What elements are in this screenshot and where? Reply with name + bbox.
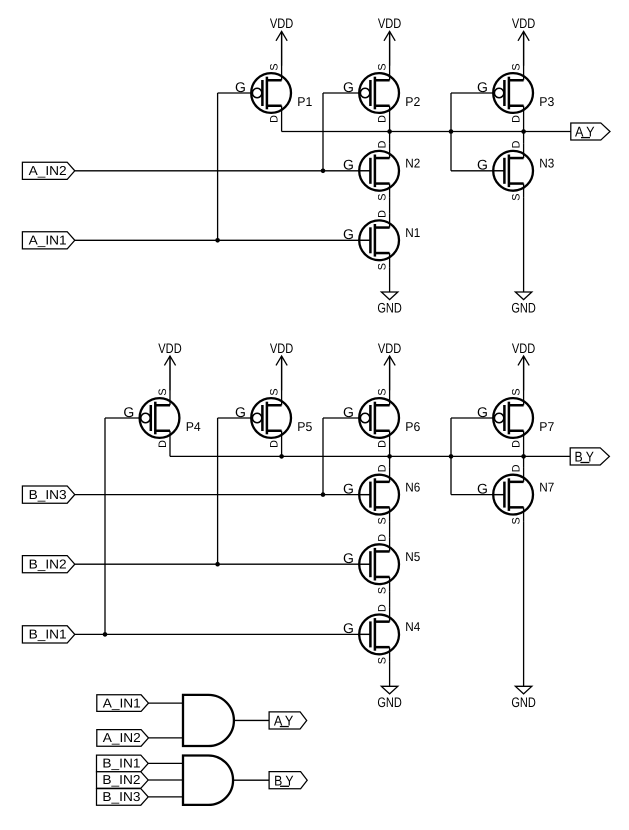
wire B_IN1 to gate B: [148, 762, 183, 764]
wire N2 drain to bus: [389, 132, 391, 144]
wire B_IN3 branch up to P6 gate: [322, 418, 324, 495]
svg-text:N6: N6: [405, 479, 420, 494]
wire A_IN2 to gate A: [149, 737, 184, 739]
wire VDD to P6 source: [389, 356, 391, 391]
junction bus at P6-N6 drains: [387, 454, 392, 459]
hierarchical label B_Y: [570, 448, 609, 465]
svg-text:S: S: [376, 63, 388, 70]
svg-text:D: D: [510, 440, 522, 448]
svg-text:VDD: VDD: [158, 341, 181, 356]
wire B_IN2 to N5 gate: [75, 563, 371, 565]
svg-text:B_IN3: B_IN3: [29, 487, 67, 502]
svg-text:P7: P7: [539, 419, 554, 434]
wire N7 drain to bus: [523, 456, 525, 467]
wire N4 source to GND: [389, 661, 391, 686]
svg-text:G: G: [343, 480, 354, 496]
svg-text:G: G: [477, 79, 488, 95]
wire N3 gate: [451, 170, 504, 172]
wire N7 gate: [451, 494, 504, 496]
transistor P2 (PMOS): [343, 63, 420, 123]
transistor P3 (PMOS): [477, 63, 554, 123]
svg-text:D: D: [376, 140, 388, 148]
wire B_IN1 to N4 gate: [75, 633, 371, 635]
svg-text:VDD: VDD: [512, 16, 535, 31]
svg-text:GND: GND: [377, 301, 402, 316]
wire VDD to P3 source: [523, 31, 525, 66]
svg-text:VDD: VDD: [378, 16, 401, 31]
junction B_IN2 / P5 gate: [215, 562, 220, 567]
svg-text:N7: N7: [539, 479, 554, 494]
svg-text:G: G: [343, 620, 354, 636]
junction bus at P3-N3 drains: [521, 129, 526, 134]
wire P7 drain to bus: [523, 445, 525, 456]
transistor N4 (NMOS): [343, 604, 420, 664]
svg-text:VDD: VDD: [512, 341, 535, 356]
wire VDD to P5 source: [281, 356, 283, 391]
svg-text:S: S: [376, 193, 388, 200]
wire B_IN2 to gate B: [148, 779, 183, 781]
svg-text:D: D: [157, 440, 169, 448]
svg-text:D: D: [510, 115, 522, 123]
hierarchical label B_IN2: [97, 772, 149, 789]
svg-text:S: S: [157, 388, 169, 395]
svg-text:D: D: [376, 210, 388, 218]
hierarchical label A_IN1: [97, 695, 149, 712]
svg-text:N3: N3: [539, 156, 554, 171]
wire A_IN1 to N1 gate: [75, 239, 371, 241]
wire A_IN2 to N2 gate: [75, 170, 371, 172]
svg-text:D: D: [376, 534, 388, 542]
wire P7 gate: [451, 417, 494, 419]
wire P1 drain to bus: [281, 120, 283, 132]
svg-text:S: S: [510, 517, 522, 524]
junction B_IN1 / P4 gate: [103, 632, 108, 637]
transistor N5 (NMOS): [343, 534, 420, 594]
transistor N2 (NMOS): [343, 140, 420, 200]
wire P4 gate: [105, 417, 141, 419]
svg-text:S: S: [376, 587, 388, 594]
hierarchical label B_IN1: [22, 626, 74, 643]
power VDD (P4): [158, 341, 181, 391]
ground GND (N1): [377, 292, 402, 316]
wire N1 source to GND: [389, 267, 391, 292]
svg-text:B_IN1: B_IN1: [29, 627, 67, 642]
transistor N6 (NMOS): [343, 464, 420, 524]
svg-text:P4: P4: [186, 419, 201, 434]
hierarchical label A_Y: [571, 123, 610, 140]
svg-text:S: S: [268, 63, 280, 70]
transistor P5 (PMOS): [235, 388, 312, 448]
wire N6 drain to bus: [389, 456, 391, 467]
wire N2 source to N1 drain: [389, 198, 391, 214]
wire node A bus: [282, 131, 571, 133]
svg-text:G: G: [235, 404, 246, 420]
power VDD (P3): [512, 16, 535, 65]
wire P5 gate: [218, 417, 253, 419]
AND gate symbol (A_Y = A_IN1 AND A_IN2): [183, 695, 234, 746]
svg-text:P6: P6: [405, 419, 420, 434]
svg-text:S: S: [268, 388, 280, 395]
hierarchical label A_IN1: [22, 232, 74, 249]
svg-text:A_IN1: A_IN1: [29, 233, 67, 248]
hierarchical label A_IN2: [97, 730, 149, 747]
svg-text:B_IN1: B_IN1: [102, 756, 140, 771]
svg-text:G: G: [477, 480, 488, 496]
wire VDD to P4 source: [169, 356, 171, 391]
svg-text:S: S: [376, 388, 388, 395]
wire P6 drain to bus: [389, 445, 391, 456]
power VDD (P1): [270, 16, 293, 65]
ground GND (N3): [511, 292, 536, 316]
junction A_IN1 / P1 gate: [215, 238, 220, 243]
svg-text:N2: N2: [405, 156, 420, 171]
junction bus at inverter B input: [449, 454, 454, 459]
svg-text:B_IN3: B_IN3: [102, 789, 140, 804]
hierarchical label A_IN2: [22, 162, 74, 179]
wire N3 source to GND: [523, 198, 525, 292]
svg-text:D: D: [510, 464, 522, 472]
wire P6 gate: [323, 417, 360, 419]
svg-text:S: S: [510, 63, 522, 70]
transistor N3 (NMOS): [477, 140, 554, 200]
power VDD (P5): [270, 341, 293, 391]
wire N5 source to N4 drain: [389, 591, 391, 607]
wire A_IN1 to gate A: [149, 702, 184, 704]
svg-text:A_IN2: A_IN2: [29, 163, 67, 178]
wire gate A output: [234, 719, 269, 721]
svg-text:D: D: [510, 140, 522, 148]
wire N3 drain to bus: [523, 132, 525, 144]
svg-text:VDD: VDD: [270, 16, 293, 31]
svg-text:P5: P5: [297, 419, 312, 434]
hierarchical label A_Y: [269, 712, 307, 729]
wire N7 source to GND: [523, 522, 525, 687]
hierarchical label B_IN2: [22, 556, 74, 573]
junction bus at P5 drain: [279, 454, 284, 459]
wire VDD to P2 source: [389, 31, 391, 66]
ground GND (N7): [511, 686, 536, 710]
wire A_IN2 branch up to P2 gate: [322, 93, 324, 171]
wire VDD to P7 source: [523, 356, 525, 391]
wire A_IN1 branch up to P1 gate: [217, 93, 219, 240]
wire VDD to P1 source: [281, 31, 283, 66]
wire P3 drain to bus: [523, 120, 525, 132]
power VDD (P6): [378, 341, 401, 391]
svg-text:G: G: [343, 79, 354, 95]
svg-text:A_IN2: A_IN2: [103, 730, 141, 745]
transistor P6 (PMOS): [343, 388, 420, 448]
wire inverter input branch vertical: [450, 93, 452, 171]
wire inverter B input branch vertical: [450, 418, 452, 495]
junction B_IN3 / P6 gate: [321, 492, 326, 497]
hierarchical label B_Y: [269, 772, 307, 789]
svg-text:S: S: [376, 263, 388, 270]
svg-text:P2: P2: [405, 94, 420, 109]
wire B_IN2 branch up to P5 gate: [217, 418, 219, 564]
wire node B bus: [170, 455, 570, 457]
svg-text:D: D: [268, 440, 280, 448]
svg-text:GND: GND: [377, 695, 402, 710]
svg-text:S: S: [510, 193, 522, 200]
svg-text:G: G: [477, 157, 488, 173]
svg-text:G: G: [477, 404, 488, 420]
svg-text:G: G: [343, 550, 354, 566]
svg-text:N1: N1: [405, 225, 420, 240]
wire P1 gate: [218, 92, 253, 94]
wire P4 drain to bus: [169, 445, 171, 456]
transistor P1 (PMOS): [235, 63, 312, 123]
svg-text:S: S: [510, 388, 522, 395]
svg-text:GND: GND: [511, 301, 536, 316]
svg-text:G: G: [343, 226, 354, 242]
wire P2 drain to bus: [389, 120, 391, 132]
svg-text:N4: N4: [405, 619, 420, 634]
svg-text:P1: P1: [297, 94, 312, 109]
transistor P4 (PMOS): [123, 388, 200, 448]
svg-text:B_IN2: B_IN2: [29, 556, 67, 571]
wire P2 gate: [323, 92, 360, 94]
junction bus at P2-N2 drains: [387, 129, 392, 134]
svg-text:G: G: [343, 157, 354, 173]
AND gate symbol (B_Y = B_IN1 AND B_IN2 AND B_IN3): [183, 756, 233, 805]
wire N6 source to N5 drain: [389, 522, 391, 538]
svg-text:G: G: [123, 404, 134, 420]
transistor N1 (NMOS): [343, 210, 420, 270]
hierarchical label B_IN3: [97, 789, 149, 806]
wire gate B output: [233, 779, 269, 781]
wire B_IN3 to gate B: [148, 796, 183, 798]
wire B_IN1 branch up to P4 gate: [104, 418, 106, 634]
junction A_IN2 / P2 gate: [321, 169, 326, 174]
ground GND (N4): [377, 686, 402, 710]
transistor P7 (PMOS): [477, 388, 554, 448]
svg-text:G: G: [235, 79, 246, 95]
svg-text:D: D: [376, 440, 388, 448]
svg-text:D: D: [376, 604, 388, 612]
svg-text:B_IN2: B_IN2: [102, 772, 140, 787]
svg-text:D: D: [376, 464, 388, 472]
wire P3 gate: [451, 92, 494, 94]
svg-text:VDD: VDD: [378, 341, 401, 356]
power VDD (P7): [512, 341, 535, 391]
svg-text:GND: GND: [511, 695, 536, 710]
svg-text:A_IN1: A_IN1: [103, 695, 141, 710]
hierarchical label B_IN1: [97, 755, 149, 772]
svg-text:S: S: [376, 657, 388, 664]
svg-text:S: S: [376, 517, 388, 524]
svg-text:G: G: [343, 404, 354, 420]
junction bus at P7-N7 drains: [521, 454, 526, 459]
svg-text:D: D: [376, 115, 388, 123]
svg-text:P3: P3: [539, 94, 554, 109]
wire B_IN3 to N6 gate: [75, 494, 371, 496]
svg-text:N5: N5: [405, 549, 420, 564]
svg-text:VDD: VDD: [270, 341, 293, 356]
hierarchical label B_IN3: [22, 486, 74, 503]
transistor N7 (NMOS): [477, 464, 554, 524]
power VDD (P2): [378, 16, 401, 65]
wire P5 drain to bus: [281, 445, 283, 456]
svg-text:D: D: [268, 115, 280, 123]
junction bus at inverter input: [449, 129, 454, 134]
